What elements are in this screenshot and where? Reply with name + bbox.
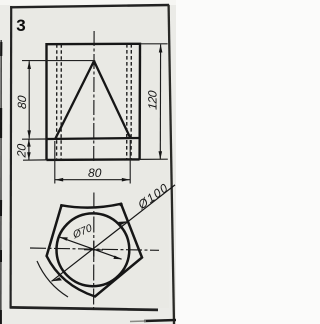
svg-text:120: 120 [146,90,160,111]
arrow 80b left [55,178,63,182]
svg-text:3: 3 [16,16,25,35]
dimension 20 line [28,139,30,160]
arrow d70 upper-left [60,237,68,241]
svg-text:20: 20 [14,143,28,159]
dimension 120 line [159,45,161,160]
frame border top [10,5,169,7]
prism outline rectangle [47,44,141,160]
front view centerline [93,31,95,162]
arrow d100 at pentagon edge [118,221,128,225]
hidden line right inner [126,44,128,160]
arc of circumscribed circle d100 [37,261,68,297]
hidden line left outer [56,44,58,160]
scan page edge bottom-right [144,320,176,321]
arrow 80 bottom [27,130,31,138]
extension line at apex level [22,60,94,62]
arrow 80b right [122,178,130,182]
arrow 20 bottom [27,152,31,159]
base line extension left [22,138,47,140]
extension line 80-bottom left [54,141,56,184]
hidden line left inner [60,44,62,160]
arrow 80 top [27,61,31,69]
pentagon outline [47,204,142,297]
extension line 80-bottom right [129,140,131,184]
svg-text:80: 80 [15,95,29,110]
arrow 20 top [27,139,31,147]
arrow d70 lower-right [113,256,121,260]
apex junction blob [93,60,96,63]
cone right generatrix [94,61,130,138]
centerline vertical [93,193,95,311]
bottom line of object [47,158,140,161]
arrow d100 lower-left [52,277,62,281]
centerline horizontal [30,248,159,250]
frame border bottom [10,307,158,310]
hidden line right outer [130,44,132,160]
dimension 80 bottom line [55,179,130,181]
base top line (cone base level) [47,138,141,139]
paper background [0,0,176,324]
cone left generatrix [55,61,94,139]
bottom extension right (for 120) [140,158,168,160]
scan edge artifact left [0,40,2,324]
arrow 120 top [159,44,163,52]
bottom line extension left [23,159,47,161]
circle d70 [57,213,130,286]
top extension right (for 120) [140,43,168,45]
frame border left [10,6,13,309]
frame border right [169,5,174,324]
dimension line d100 [52,185,176,281]
pentagon corner blobs [119,203,122,206]
svg-text:80: 80 [88,166,102,180]
dimension line d70 [60,237,122,259]
arrow 120 bottom [159,151,163,159]
center cross solid segments [84,249,103,251]
dimension 80 left line [28,61,30,138]
